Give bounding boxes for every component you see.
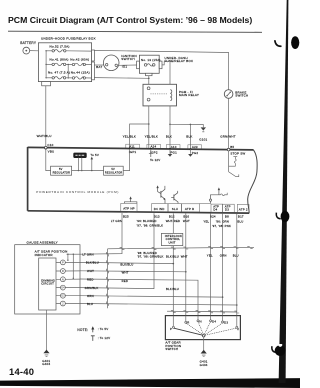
svg-text:D4: D4 xyxy=(213,208,217,212)
svg-text:UNDER–HOOD FUSE/RELAY BOX: UNDER–HOOD FUSE/RELAY BOX xyxy=(41,37,96,41)
svg-text:B13: B13 xyxy=(154,215,160,219)
svg-text:BLK/BLU: BLK/BLU xyxy=(120,263,133,267)
gauge wire BLU xyxy=(80,302,238,306)
ground PG2 xyxy=(188,149,193,157)
gauge assembly box xyxy=(15,240,80,314)
switch label xyxy=(165,341,181,351)
wire IG1 to under-dash fuse box xyxy=(119,64,137,66)
svg-text:G404: G404 xyxy=(200,363,208,367)
wire internal left bus xyxy=(45,50,46,78)
svg-text:14-40: 14-40 xyxy=(9,366,34,377)
svg-text:BLK/BLU: BLK/BLU xyxy=(166,287,179,291)
svg-text:: To 12V: : To 12V xyxy=(98,336,111,340)
svg-text:MAIN RELAY: MAIN RELAY xyxy=(179,93,199,97)
svg-text:WHT: WHT xyxy=(181,254,188,258)
switch terminal N xyxy=(197,316,202,324)
svg-text:BLU: BLU xyxy=(87,302,93,306)
bulb D3 xyxy=(56,293,80,298)
svg-text:B17: B17 xyxy=(238,215,244,219)
connector line at gear position switch xyxy=(167,310,237,313)
svg-text:WHT: WHT xyxy=(122,271,129,275)
5V regulator right xyxy=(104,166,124,175)
brake switch xyxy=(224,90,248,99)
svg-text:D3: D3 xyxy=(224,321,228,325)
svg-text:WHT: WHT xyxy=(183,219,190,223)
bulb P xyxy=(56,260,80,265)
fuse No.41 (80A) xyxy=(46,57,72,65)
svg-text:SWITCH: SWITCH xyxy=(235,94,248,98)
wire B24 YEL down to switch xyxy=(210,214,212,316)
gauge wire WHT xyxy=(80,269,187,274)
binder blob top xyxy=(291,36,299,49)
pin C10 / VBU xyxy=(45,143,55,153)
svg-text:INDICATOR: INDICATOR xyxy=(35,253,54,257)
svg-text:BLU: BLU xyxy=(237,219,243,223)
svg-text:BAT: BAT xyxy=(96,65,102,69)
pin A10 xyxy=(166,145,180,155)
svg-text:GRN/WHT: GRN/WHT xyxy=(220,135,236,139)
wire color labels below pins xyxy=(111,219,244,228)
node A10 on edge xyxy=(169,148,171,150)
svg-text:GAUGE ASSEMBLY: GAUGE ASSEMBLY xyxy=(27,240,58,244)
svg-text:D3: D3 xyxy=(225,208,229,212)
wire B17 BLU down to switch xyxy=(236,214,238,316)
svg-text:SLU: SLU xyxy=(172,207,178,211)
switch terminal 2 xyxy=(236,316,240,331)
svg-text:ORN: ORN xyxy=(220,254,227,258)
svg-text:: To 5V: : To 5V xyxy=(98,327,109,331)
svg-text:VBU: VBU xyxy=(48,150,55,154)
svg-text:N: N xyxy=(62,277,64,281)
wire hot-at-all-times to brake switch xyxy=(94,50,228,89)
PGM-FI main relay xyxy=(143,84,199,106)
switch terminal D4 xyxy=(210,316,217,324)
node A11 on edge xyxy=(129,148,131,150)
pin cell ATP 2 xyxy=(237,204,249,212)
note legend xyxy=(77,326,110,341)
svg-text:YEL: YEL xyxy=(207,253,213,257)
svg-text:B12: B12 xyxy=(169,215,175,219)
svg-text:D4: D4 xyxy=(212,319,216,323)
svg-text:STOP SW: STOP SW xyxy=(230,151,245,155)
svg-text:ORN: ORN xyxy=(87,294,94,298)
svg-text:NOTE:: NOTE: xyxy=(77,328,88,332)
5V regulator left xyxy=(51,166,72,175)
svg-text:ATP 2: ATP 2 xyxy=(239,207,248,211)
svg-text:G101: G101 xyxy=(199,138,207,142)
svg-text:P: P xyxy=(170,327,172,331)
connector terminals on vertical wires xyxy=(120,246,253,249)
transistor above SLU pin xyxy=(171,191,178,203)
bulb N xyxy=(56,277,80,282)
battery xyxy=(20,41,37,54)
svg-text:R: R xyxy=(62,269,64,273)
pin cell ATP NP xyxy=(121,203,137,211)
binder blob bottom xyxy=(272,344,286,356)
svg-text:YEL/BLK: YEL/BLK xyxy=(145,134,158,138)
svg-text:WHT/BLU: WHT/BLU xyxy=(37,134,52,138)
right binding line xyxy=(279,0,289,383)
svg-text:LT GRN: LT GRN xyxy=(82,253,93,257)
svg-text:SWITCH: SWITCH xyxy=(165,347,178,351)
node fuse junction xyxy=(148,78,150,80)
fuse No.47 (7.5A) xyxy=(46,71,72,79)
bulb 2 xyxy=(56,301,80,306)
svg-text:IGP1: IGP1 xyxy=(129,150,137,154)
svg-text:SWITCH: SWITCH xyxy=(121,57,135,61)
bottom black bar xyxy=(0,378,300,388)
svg-text:BATTERY: BATTERY xyxy=(20,41,37,45)
svg-text:2: 2 xyxy=(237,327,239,331)
svg-text:GRN/BLK: GRN/BLK xyxy=(85,286,99,290)
PCM right edge curve xyxy=(248,150,257,213)
svg-text:No.44 (15A): No.44 (15A) xyxy=(71,71,90,75)
wire BAT to ignition switch xyxy=(94,64,103,66)
svg-text:WHT: WHT xyxy=(87,269,94,273)
wire relay to ground G101 xyxy=(169,106,203,149)
binder crescent top xyxy=(275,40,282,46)
svg-text:D4 IND: D4 IND xyxy=(154,207,165,211)
svg-text:YEL/BLK: YEL/BLK xyxy=(123,134,136,138)
pin cell D4 IND xyxy=(152,204,169,212)
wire B12 down to interlock unit xyxy=(172,213,174,233)
transistor above D4 IND pin xyxy=(156,185,165,203)
node A24 on edge xyxy=(150,148,152,150)
svg-text:BLK: BLK xyxy=(186,134,192,138)
fuse No.13 (15A) xyxy=(144,64,155,67)
pin A24 xyxy=(147,144,161,154)
svg-text:No.41 (80A): No.41 (80A) xyxy=(50,57,69,61)
svg-text:P: P xyxy=(62,260,64,264)
fuse No.42 (60A) xyxy=(70,57,91,65)
svg-text:’97, ’98: GRN/BLK: ’97, ’98: GRN/BLK xyxy=(137,255,164,259)
IGP2 To 12V symbol xyxy=(149,149,161,162)
svg-text:BLU: BLU xyxy=(233,254,239,258)
pin circle B5 on edge xyxy=(227,148,230,151)
bulb D4 xyxy=(56,285,80,290)
svg-text:BLK/BLU: BLK/BLU xyxy=(86,261,99,265)
ground PG1 xyxy=(168,149,173,157)
wire brake switch to PCM STOP SW xyxy=(228,98,230,148)
svg-text:No. 47 (7.5 A): No. 47 (7.5 A) xyxy=(48,71,70,75)
pin cell SLU xyxy=(168,204,182,212)
pin cell ATP D3 xyxy=(223,204,235,212)
pin A11 xyxy=(126,144,140,154)
wire interlock to gear position switch xyxy=(172,246,174,316)
svg-text:To 12V: To 12V xyxy=(150,158,160,162)
svg-text:POWERTRAIN CONTROL MODULE (PCM: POWERTRAIN CONTROL MODULE (PCM) xyxy=(36,190,119,194)
wire LT GRN inside gauge xyxy=(67,253,94,279)
internal pull-up above ATP D4 pin xyxy=(200,187,228,203)
svg-text:PCM Circuit Diagram (A/T Contr: PCM Circuit Diagram (A/T Control System:… xyxy=(8,15,252,25)
internal symbol above ATP NP pin xyxy=(124,196,136,203)
title underline xyxy=(8,31,262,32)
svg-text:C10: C10 xyxy=(47,143,53,147)
svg-text:B8: B8 xyxy=(225,215,229,219)
node A23 on edge xyxy=(190,148,192,150)
wire 5V bus xyxy=(72,170,104,172)
connector terminals on gauge wires xyxy=(107,252,109,306)
pin A23 xyxy=(188,145,202,155)
svg-text:No.52 (7.5A): No.52 (7.5A) xyxy=(50,44,70,48)
wire B16 WHT down to switch xyxy=(185,213,187,315)
ground G101 xyxy=(199,127,207,141)
STOP SW internal pull-up and switch xyxy=(229,151,239,177)
A/T gear position switch box xyxy=(165,316,240,340)
ground G401 G404 gauge xyxy=(42,350,50,367)
svg-text:ATP R: ATP R xyxy=(185,207,194,211)
svg-text:To 5V: To 5V xyxy=(90,153,99,157)
connector terminals at switch xyxy=(171,310,239,313)
svg-text:5V: 5V xyxy=(111,167,115,171)
binder blob middle xyxy=(276,211,289,222)
svg-text:B25: B25 xyxy=(123,214,129,218)
wire gauge to ground xyxy=(46,310,48,350)
pin circle C10 on edge xyxy=(45,146,48,149)
pin cell ATP R xyxy=(182,204,200,212)
pin B5 / STOP SW xyxy=(227,145,245,156)
node between No.42 and No.44 xyxy=(68,64,69,79)
gauge wire ORN xyxy=(80,294,223,298)
wire battery to fuse box xyxy=(30,50,39,52)
wire B13 down to D4 indicator wire xyxy=(80,213,154,288)
switch terminal R xyxy=(185,316,190,325)
ignition switch xyxy=(103,54,136,71)
interlock control unit xyxy=(161,233,182,245)
svg-text:R: R xyxy=(187,321,189,325)
under-hood fuse/relay box xyxy=(38,37,95,86)
svg-text:’97, ’98: GRN/BLK: ’97, ’98: GRN/BLK xyxy=(137,224,164,228)
svg-text:BLK: BLK xyxy=(166,134,172,138)
PCM top edge xyxy=(28,147,254,150)
under-dash fuse/relay box xyxy=(137,55,194,76)
wire IGP1 to regulator xyxy=(123,149,129,171)
wire switch to ground xyxy=(203,337,205,350)
svg-text:BLK/BLU: BLK/BLU xyxy=(166,254,179,258)
svg-text:B16: B16 xyxy=(183,215,189,219)
svg-text:N: N xyxy=(200,319,202,323)
second color labels below connector xyxy=(137,251,239,259)
svg-text:ATP NP: ATP NP xyxy=(123,207,135,211)
svg-text:B5: B5 xyxy=(230,145,234,149)
switch terminal D3 xyxy=(222,316,229,325)
wire relay output to IGP junction xyxy=(130,106,150,149)
gauge wire RED to switch N xyxy=(80,277,198,315)
wire under-dash box to relay contact xyxy=(162,62,170,85)
wire No.13 output down to relay xyxy=(148,76,150,85)
wire B8 ORN down to switch xyxy=(222,214,224,316)
pin cell ATP D4 xyxy=(211,204,223,212)
wire WHT/BLU fuse box to PCM VBU xyxy=(37,86,52,147)
svg-text:RED: RED xyxy=(87,277,94,281)
fuse No.44 (15A) xyxy=(71,71,92,80)
svg-text:No. 13 (15A): No. 13 (15A) xyxy=(141,58,161,62)
dimming circuit xyxy=(39,258,56,310)
bulb R xyxy=(56,269,80,274)
wire No.44 output to relay xyxy=(94,77,148,80)
wire B25 LT GRN down to gauge xyxy=(80,213,122,254)
svg-text:REGULATOR: REGULATOR xyxy=(105,171,123,175)
To 5V arrow xyxy=(90,153,99,171)
memory box xyxy=(74,153,87,158)
svg-text:FUSE/RELAY BOX: FUSE/RELAY BOX xyxy=(165,59,194,63)
svg-text:LT GRN: LT GRN xyxy=(111,219,122,223)
wire memory legs to 5V bus xyxy=(78,158,83,172)
PCM left edge xyxy=(27,147,29,211)
connector C101 line xyxy=(108,247,254,308)
svg-text:RED: RED xyxy=(122,279,129,283)
PCM bottom edge xyxy=(28,211,250,213)
switch terminal P xyxy=(170,316,174,331)
svg-text:IGP2: IGP2 xyxy=(150,150,158,154)
svg-text:G404: G404 xyxy=(42,362,50,366)
fuse No.52 (7.5A) xyxy=(46,44,92,52)
svg-text:REGULATOR: REGULATOR xyxy=(53,171,71,175)
svg-text:CIRCUIT: CIRCUIT xyxy=(41,282,54,286)
svg-text:’97, ’98: PNK: ’97, ’98: PNK xyxy=(212,224,231,228)
svg-text:No.42 (60A): No.42 (60A) xyxy=(70,57,89,61)
svg-text:YEL: YEL xyxy=(203,219,209,223)
gauge wire BLK/BLU to interlock wire xyxy=(80,261,174,267)
svg-text:5V: 5V xyxy=(59,167,63,171)
svg-text:UNIT: UNIT xyxy=(169,240,176,244)
wire VBU to 5V regulator xyxy=(46,149,51,170)
ground G401 G404 switch xyxy=(200,350,208,367)
rotary contact and fan xyxy=(174,322,236,337)
svg-text:PG2: PG2 xyxy=(192,151,199,155)
